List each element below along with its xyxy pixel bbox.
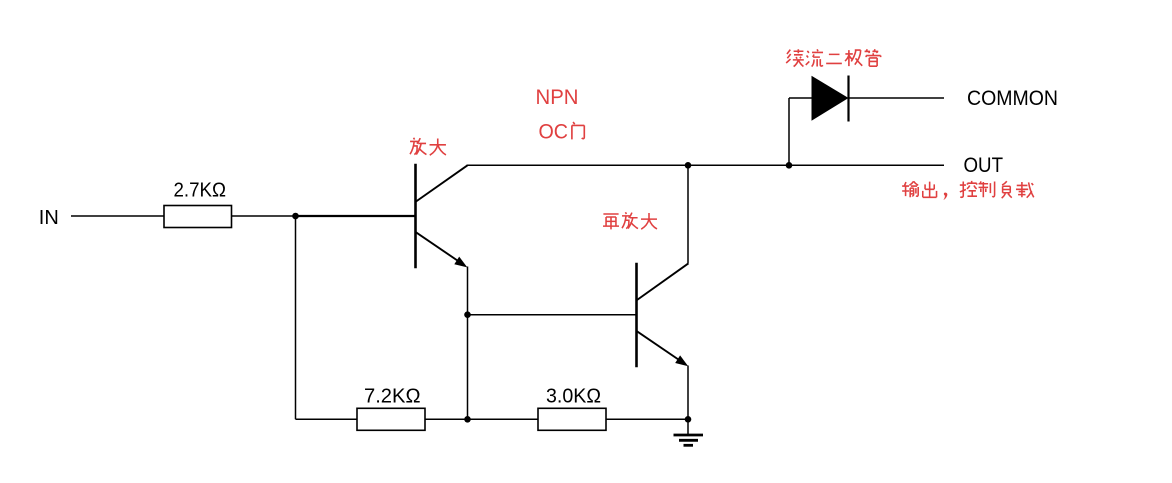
label char 二: [826, 54, 842, 63]
wire IN to R1: [71, 215, 164, 217]
label char 放: [410, 138, 426, 155]
node A junction dot: [292, 213, 299, 220]
label char 流: [806, 49, 823, 66]
resistor R 2.7K box: [164, 206, 232, 228]
wire OUT rail: [467, 164, 945, 166]
label char 门 (OC gate): [572, 122, 584, 139]
wire diode cathode to COMMON: [849, 97, 945, 99]
transistor Q2 collector: [637, 263, 689, 300]
svg-text:2.7KΩ: 2.7KΩ: [174, 180, 227, 202]
wire node B to Q2 base: [468, 314, 637, 316]
wire diode anode: [789, 97, 813, 99]
diode D1 triangle: [812, 76, 849, 121]
label char 载: [1016, 182, 1034, 198]
label char 大: [430, 139, 446, 156]
wire node A to Q1 base: [296, 215, 416, 217]
label char 再: [603, 214, 619, 229]
ground symbol: [674, 435, 704, 445]
svg-text:OC: OC: [539, 119, 569, 143]
svg-text:OUT: OUT: [964, 153, 1004, 177]
wire R1 to node A: [232, 215, 297, 217]
label char 续: [786, 49, 804, 66]
label char 管: [865, 49, 881, 66]
transistor Q1 collector: [416, 165, 468, 201]
label char 出: [923, 182, 937, 198]
wire Q2 collector up to OUT rail: [687, 165, 689, 263]
wire node A down left rail: [295, 216, 297, 419]
wire bottom left to R2: [296, 418, 358, 420]
transistor Q2 base bar: [635, 263, 638, 368]
transistor Q2 emitter arrow: [675, 355, 688, 366]
label char 放: [622, 212, 638, 228]
transistor Q1 emitter: [416, 232, 464, 265]
svg-text:IN: IN: [39, 206, 59, 229]
node F junction dot (diode branch / OUT rail): [786, 162, 793, 169]
resistor R 7.2K box: [357, 408, 425, 430]
label char 制: [979, 181, 995, 197]
svg-text:NPN: NPN: [536, 85, 579, 109]
resistor R 3.0K box: [538, 408, 606, 430]
node D junction dot (ground): [685, 416, 692, 423]
transistor Q2 emitter: [637, 331, 685, 364]
wire R2 to R3: [425, 418, 538, 420]
wire Q2 emitter down to ground node: [687, 366, 689, 436]
node C junction dot (bottom rail): [464, 416, 471, 423]
diode D1 cathode bar: [847, 76, 849, 122]
node E junction dot (Q2 collector / OUT rail): [685, 162, 692, 169]
label char ，: [943, 193, 947, 201]
label char 负: [1002, 181, 1012, 198]
wire diode branch vertical: [788, 98, 790, 165]
transistor Q1 emitter arrow: [454, 257, 467, 268]
label char 输: [902, 181, 918, 197]
label char 极: [845, 50, 862, 66]
svg-text:3.0KΩ: 3.0KΩ: [546, 386, 601, 408]
transistor Q1 base bar: [414, 164, 417, 268]
wire R3 to ground node: [606, 418, 688, 420]
node B junction dot: [464, 311, 471, 318]
label char 大: [641, 213, 657, 229]
label char 控: [960, 181, 977, 197]
svg-text:COMMON: COMMON: [967, 86, 1058, 110]
svg-text:7.2KΩ: 7.2KΩ: [364, 386, 421, 408]
wire Q1 emitter down to node B: [467, 267, 469, 420]
